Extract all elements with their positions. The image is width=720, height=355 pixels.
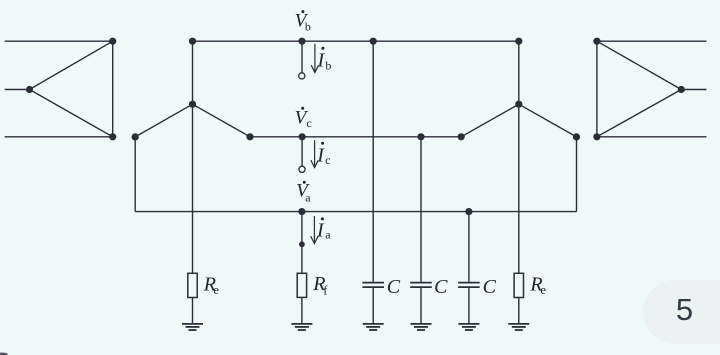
label Vb — [295, 10, 311, 33]
svg-text:I: I — [316, 219, 325, 241]
svg-text:a: a — [325, 228, 331, 242]
svg-text:c: c — [306, 116, 311, 130]
capacitor C3 top plate — [458, 282, 480, 284]
current arrow Ib — [311, 44, 318, 73]
wire: left neutral vertical (Vb bus to Re left) — [192, 41, 194, 273]
current arrow Ia — [311, 216, 318, 244]
junction node: T2 right vertex — [678, 86, 685, 93]
wire: left vertical from node A1 down to bus Va — [134, 137, 136, 212]
junction node: Va terminal on bus — [298, 208, 305, 215]
svg-text:I: I — [317, 50, 326, 72]
bus Vb wire — [193, 40, 519, 42]
wire: Vb terminal stub — [301, 41, 303, 72]
junction node A1: left eave — [132, 133, 139, 140]
ground symbol (under Rf) — [291, 324, 312, 330]
svg-text:c: c — [325, 153, 330, 167]
capacitor C2 top plate — [410, 282, 432, 284]
open terminal b — [299, 73, 305, 79]
right delta winding T2: bottom lead wire — [597, 136, 707, 138]
svg-text:a: a — [305, 190, 311, 204]
wire: Re right lower lead — [518, 298, 520, 324]
svg-text:b: b — [325, 58, 331, 72]
svg-text:C: C — [483, 276, 497, 298]
bus Va wire — [135, 211, 576, 213]
bus Vc wire — [250, 136, 461, 138]
wire: left wye diagonal to node A1 — [135, 104, 192, 137]
junction node: fault point on Rf branch — [299, 241, 305, 247]
junction node: T2 bottom-left vertex — [593, 133, 600, 140]
junction node: T1 left vertex — [26, 86, 33, 93]
ground symbol (under Re left) — [182, 324, 203, 330]
junction node: Vb bus left end — [189, 38, 196, 45]
ground symbol (under Re right) — [508, 324, 529, 330]
label Ia — [316, 217, 331, 241]
junction node: T1 bottom-right vertex — [109, 133, 116, 140]
decorative dark corner sliver (bottom-left) — [0, 353, 8, 355]
resistor Re (right) body — [514, 273, 523, 297]
wire: Va stub to fault point — [301, 212, 303, 274]
resistor Rf body — [297, 273, 306, 297]
label Re (left) — [203, 274, 220, 298]
left delta winding T1: bottom lead wire — [5, 136, 113, 138]
wire: Re left lower lead — [192, 298, 194, 324]
left delta winding T1: vertical side — [112, 41, 114, 137]
open terminal c — [299, 166, 305, 172]
ground symbol (under C2) — [411, 324, 432, 330]
label Ic — [316, 142, 330, 167]
capacitor C2 bottom plate — [410, 286, 432, 288]
wire: capacitor C3 lower lead — [468, 288, 470, 324]
left delta winding T1: middle lead wire — [5, 89, 30, 91]
right delta winding T2: vertical side — [596, 41, 598, 137]
svg-text:b: b — [305, 19, 311, 33]
right delta winding T2: upper diagonal — [597, 41, 681, 89]
junction node: right eave — [573, 133, 580, 140]
label Rf — [312, 273, 328, 298]
junction node: Vb terminal on bus — [298, 38, 305, 45]
svg-text:5: 5 — [676, 292, 693, 327]
resistor Re (left) body — [188, 273, 197, 297]
ground symbol (under C3) — [458, 324, 479, 330]
wire: right vertical from bus Va up to node C4 — [576, 137, 578, 212]
wire: capacitor C2 upper lead from bus Vc — [420, 137, 422, 282]
junction node: right wye apex — [515, 101, 522, 108]
svg-text:C: C — [434, 276, 448, 298]
junction node: Vc bus right end — [458, 133, 465, 140]
capacitor C1 bottom plate — [362, 286, 384, 288]
wire: capacitor C3 upper lead from bus Va — [468, 212, 470, 282]
label Ib — [317, 47, 332, 73]
junction node: Vb bus right end — [515, 38, 522, 45]
ground symbol (under C1) — [363, 324, 384, 330]
wire: capacitor C1 upper lead from bus Vb — [372, 41, 374, 282]
wire: Rf lower lead — [301, 297, 303, 324]
svg-text:C: C — [387, 276, 401, 298]
wire: right wye diagonal from node C3 — [461, 104, 519, 137]
svg-text:e: e — [540, 283, 546, 297]
wire: right neutral vertical (Vb bus to Re right) — [518, 41, 520, 273]
label Va — [296, 181, 311, 205]
svg-text:e: e — [213, 283, 219, 297]
left delta winding T1: top lead wire — [5, 40, 113, 42]
junction node: T2 top-left vertex — [593, 38, 600, 45]
wire: Vc terminal stub — [301, 137, 303, 166]
wire: capacitor C1 lower lead — [372, 288, 374, 324]
right delta winding T2: middle lead wire — [681, 89, 706, 91]
right delta winding T2: top lead wire — [597, 40, 707, 42]
junction node: left wye apex — [189, 101, 196, 108]
junction node: C1 tap on Vb bus — [370, 38, 377, 45]
wire: right wye diagonal to node C4 — [519, 104, 577, 137]
capacitor C1 top plate — [362, 282, 384, 284]
page number pill — [643, 280, 720, 345]
svg-text:I: I — [316, 145, 325, 167]
wire: left wye diagonal to node C1 — [193, 104, 251, 137]
junction node C1eave: Vc bus left end — [246, 133, 253, 140]
junction node: C3 tap on Va bus — [465, 208, 472, 215]
left delta winding T1: upper diagonal — [30, 41, 113, 89]
label Re (right) — [529, 274, 546, 298]
junction node: T1 top-right vertex — [109, 38, 116, 45]
junction node: Vc terminal on bus — [299, 133, 306, 140]
left delta winding T1: lower diagonal — [30, 90, 113, 137]
capacitor C3 bottom plate — [458, 286, 480, 288]
label Vc — [295, 107, 312, 131]
current arrow Ic — [311, 140, 318, 167]
junction node: C2 tap on Vc bus — [417, 133, 424, 140]
right delta winding T2: lower diagonal — [597, 90, 681, 137]
wire: capacitor C2 lower lead — [420, 288, 422, 324]
